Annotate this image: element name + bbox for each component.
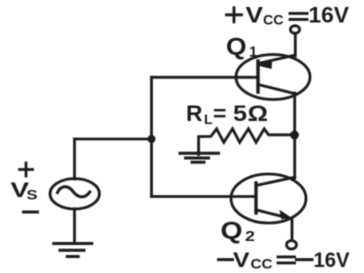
- svg-text:16V: 16V: [314, 249, 350, 272]
- label - of source: [24, 211, 38, 214]
- terminal -VCC: [287, 241, 297, 249]
- label + of source: [20, 163, 33, 176]
- resistor RL: [199, 129, 295, 155]
- svg-text:CC: CC: [251, 256, 273, 272]
- Q1 lower lead to output node: [258, 85, 297, 95]
- wire terminal to Q1 collector: [294, 33, 297, 56]
- VS sine symbol: [58, 187, 90, 197]
- transistor Q2: [231, 174, 306, 223]
- Q1 emitter arrow (pointing into base): [259, 60, 272, 69]
- wire Vs to bus: [75, 138, 152, 141]
- ground of source: [54, 244, 92, 257]
- wire Vs top lead: [73, 139, 76, 179]
- Q1 body circle: [236, 55, 310, 100]
- ground of resistor: [180, 153, 219, 162]
- Q1 upper lead to +VCC: [258, 55, 295, 63]
- svg-text:V: V: [246, 3, 264, 28]
- Q1 base bar: [256, 61, 259, 92]
- source VS (sine generator): [50, 179, 99, 209]
- label -VCC = -16V: [219, 249, 350, 272]
- svg-text:=: =: [213, 101, 227, 126]
- Q2 body circle: [231, 174, 306, 223]
- node junction left (Vs tap): [148, 135, 156, 143]
- wire right bus (Q1 emitter to Q2 collector): [293, 93, 296, 178]
- label Q1: [226, 34, 257, 61]
- Q2 emitter arrow (pointing out): [280, 211, 291, 219]
- svg-text:S: S: [27, 187, 38, 203]
- svg-text:2: 2: [245, 228, 255, 245]
- Q2 collector lead to output node: [256, 177, 295, 185]
- svg-text:Q: Q: [226, 34, 247, 61]
- svg-text:R: R: [186, 101, 203, 126]
- wire Q2 emitter lead: [291, 218, 294, 241]
- svg-text:L: L: [204, 111, 213, 127]
- svg-text:Ω: Ω: [248, 101, 269, 126]
- svg-text:Q: Q: [221, 218, 243, 245]
- svg-text:V: V: [233, 249, 250, 272]
- Q2 emitter lead: [256, 210, 290, 219]
- Q2 base bar: [254, 183, 257, 213]
- svg-text:5: 5: [233, 101, 247, 126]
- label RL = 5 ohm: [186, 101, 268, 127]
- wire Vs bottom lead: [73, 209, 76, 244]
- label Q2: [221, 218, 256, 246]
- wire bus to Q2 base: [152, 195, 257, 198]
- node junction right (output node): [290, 131, 299, 140]
- svg-text:CC: CC: [263, 12, 284, 28]
- svg-text:16V: 16V: [309, 3, 350, 28]
- label VS: [11, 179, 38, 203]
- label +VCC = 16V: [227, 3, 350, 28]
- wire Q1 base: [152, 76, 259, 79]
- wire left bus vertical: [150, 77, 153, 196]
- terminal +VCC: [290, 26, 299, 34]
- VS body circle: [50, 179, 99, 209]
- transistor Q1: [236, 55, 310, 100]
